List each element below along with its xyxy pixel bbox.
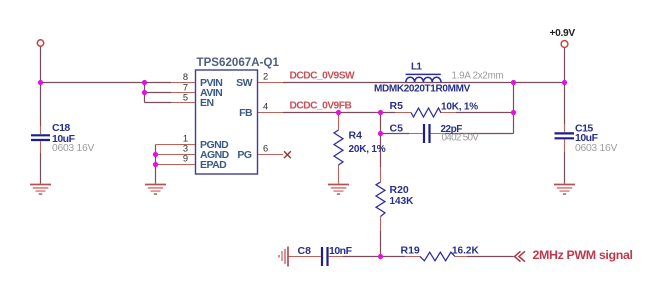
svg-text:R20: R20 — [390, 184, 409, 196]
svg-text:10nF: 10nF — [329, 245, 353, 257]
svg-text:DCDC_0V9SW: DCDC_0V9SW — [290, 71, 356, 82]
svg-text:PG: PG — [237, 149, 251, 161]
svg-text:R19: R19 — [401, 245, 420, 257]
svg-text:0402 50V: 0402 50V — [442, 132, 480, 143]
svg-text:R4: R4 — [349, 130, 363, 142]
svg-text:10K, 1%: 10K, 1% — [441, 102, 478, 113]
svg-text:9: 9 — [183, 154, 188, 164]
svg-text:8: 8 — [183, 72, 188, 82]
svg-text:5: 5 — [183, 93, 188, 103]
svg-text:R5: R5 — [390, 100, 404, 112]
svg-text:20K, 1%: 20K, 1% — [349, 144, 386, 155]
svg-text:1.9A 2x2mm: 1.9A 2x2mm — [452, 71, 504, 82]
svg-text:TPS62067A-Q1: TPS62067A-Q1 — [197, 57, 280, 69]
svg-text:C8: C8 — [298, 245, 312, 257]
svg-text:C5: C5 — [390, 123, 404, 135]
svg-text:1: 1 — [183, 134, 188, 144]
svg-text:2MHz PWM signal: 2MHz PWM signal — [533, 248, 633, 262]
svg-text:0603 16V: 0603 16V — [52, 143, 94, 154]
svg-text:3: 3 — [183, 144, 188, 154]
svg-text:EN: EN — [200, 97, 214, 109]
svg-text:FB: FB — [239, 107, 253, 119]
svg-text:DCDC_0V9FB: DCDC_0V9FB — [290, 101, 352, 112]
svg-text:EPAD: EPAD — [200, 159, 227, 171]
svg-text:L1: L1 — [411, 61, 422, 72]
svg-text:+0.9V: +0.9V — [550, 28, 576, 39]
svg-text:0603 16V: 0603 16V — [575, 143, 617, 154]
svg-text:7: 7 — [183, 83, 188, 93]
svg-text:143K: 143K — [390, 196, 415, 207]
svg-text:16.2K: 16.2K — [452, 246, 479, 257]
svg-text:4: 4 — [263, 102, 268, 112]
svg-text:MDMK2020T1R0MMV: MDMK2020T1R0MMV — [374, 84, 471, 95]
svg-text:6: 6 — [263, 144, 268, 154]
svg-text:2: 2 — [263, 72, 268, 82]
svg-text:SW: SW — [236, 77, 252, 89]
